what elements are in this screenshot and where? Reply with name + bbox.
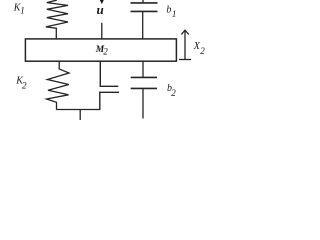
svg-text:2: 2 <box>171 88 176 98</box>
svg-text:2: 2 <box>200 46 205 56</box>
svg-text:1: 1 <box>20 6 25 16</box>
svg-text:u: u <box>97 2 104 17</box>
svg-text:1: 1 <box>172 9 177 19</box>
svg-text:2: 2 <box>103 46 108 56</box>
svg-text:b: b <box>166 5 171 16</box>
svg-text:2: 2 <box>22 80 27 90</box>
